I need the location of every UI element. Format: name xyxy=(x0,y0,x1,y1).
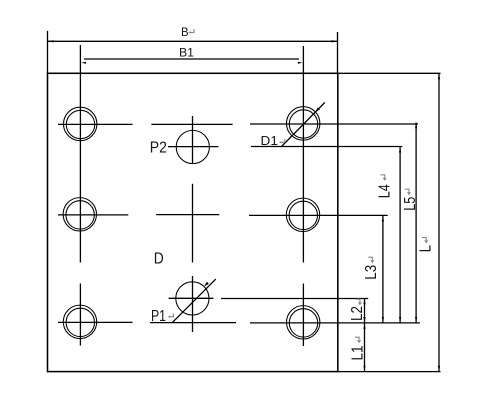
center line row 1 middle xyxy=(151,123,232,125)
arrow L2 bottom xyxy=(363,317,365,323)
center line column 3 lower xyxy=(302,284,304,347)
dimension line L4 xyxy=(399,147,401,323)
dimension line L3 xyxy=(382,216,384,323)
arrow L1 bottom xyxy=(363,366,365,372)
arrow B1 right xyxy=(298,62,303,64)
hole top-right outer circle xyxy=(287,107,320,140)
hole top-left outer circle xyxy=(63,107,96,140)
hole mid-left outer circle xyxy=(63,198,96,231)
plate outline xyxy=(48,73,338,371)
label L4 return mark (rotated) xyxy=(381,175,385,178)
svg-text:L3: L3 xyxy=(363,265,380,280)
arrow L3 bottom xyxy=(382,317,384,323)
arrow L5 top xyxy=(415,123,417,129)
center line row 3 middle (P1 leader underline) xyxy=(150,322,236,324)
center line column 2 upper (through P2) xyxy=(192,116,194,163)
hole bottom-left inner circle xyxy=(66,308,94,336)
center line row 3 left xyxy=(58,321,133,323)
extension line plate top extended right (for L) xyxy=(338,72,441,74)
svg-text:D1: D1 xyxy=(261,133,278,148)
center line row 1 right (extends to L5) xyxy=(250,123,418,125)
hole bottom-left outer circle xyxy=(63,305,96,338)
label L return mark (rotated) xyxy=(422,237,426,240)
center line row 2 middle xyxy=(156,214,219,216)
arrow D1 leader (points at circle) xyxy=(315,107,320,112)
arrow P1 leader (points at circle) xyxy=(204,282,209,287)
center line P1 row left segment xyxy=(169,297,214,299)
center line column 2 middle xyxy=(192,184,194,263)
hole P2 circle xyxy=(176,130,209,163)
arrow L4 bottom xyxy=(399,317,401,323)
center line column 3 upper xyxy=(302,46,304,263)
svg-text:B1: B1 xyxy=(179,46,194,60)
svg-text:D: D xyxy=(154,251,164,268)
center line P2 row right segment (D1 underline, extends to L4) xyxy=(251,146,402,148)
svg-text:P1: P1 xyxy=(151,308,166,325)
center line P2 row left segment xyxy=(168,146,218,148)
center line column 1 upper xyxy=(79,45,81,263)
svg-text:B: B xyxy=(181,25,189,39)
hole bottom-right inner circle xyxy=(289,309,317,337)
extension line plate bottom extended right (for L) xyxy=(338,371,441,373)
svg-text:P2: P2 xyxy=(150,140,167,157)
hole mid-right inner circle xyxy=(289,201,317,229)
dimension line B xyxy=(48,40,338,42)
center line row 3 right (extends past L5) xyxy=(250,322,420,324)
center line P1 row right segment (extends to L2) xyxy=(221,298,368,300)
center line row 2 left xyxy=(58,214,128,216)
extension line left edge top (for B) xyxy=(47,31,49,73)
arrow L5 bottom xyxy=(415,317,417,323)
center line row 1 left xyxy=(58,123,133,125)
dimension line L2 xyxy=(364,299,366,323)
center line column 1 lower xyxy=(79,284,81,346)
dimension line L xyxy=(438,73,440,371)
svg-text:L5: L5 xyxy=(402,197,419,211)
arrow L2 top xyxy=(363,299,365,305)
hole top-left inner circle xyxy=(66,110,94,138)
label L1 return mark (rotated) xyxy=(355,337,359,340)
hole top-right inner circle xyxy=(289,110,317,138)
hole mid-left inner circle xyxy=(66,201,94,229)
hole mid-right outer circle xyxy=(286,198,319,231)
arrow L bottom xyxy=(438,366,440,372)
svg-text:L1: L1 xyxy=(349,345,366,360)
leader line D1 diagonal xyxy=(282,103,325,147)
extension line right edge top (for B) xyxy=(337,32,339,73)
center line row 2 right (extends to L3) xyxy=(249,214,388,216)
arrow B left xyxy=(48,40,54,42)
arrow L3 top xyxy=(382,216,384,222)
label L2 return mark (rotated) xyxy=(356,299,360,302)
label P1 return mark xyxy=(170,313,174,316)
leader line P1 diagonal xyxy=(172,279,216,323)
arrow B1 left xyxy=(81,62,86,64)
hole bottom-right outer circle xyxy=(287,306,320,339)
dimension line L1 xyxy=(364,323,366,371)
label B return mark xyxy=(190,29,194,32)
label L3 return mark (rotated) xyxy=(368,257,372,260)
arrow L1 top xyxy=(363,323,365,329)
svg-text:L2: L2 xyxy=(349,306,366,321)
svg-text:L: L xyxy=(417,245,434,253)
label L5 return mark (rotated) xyxy=(405,189,409,192)
svg-text:L4: L4 xyxy=(377,184,394,198)
label D1 return mark xyxy=(281,139,285,142)
dimension line L5 xyxy=(415,123,417,323)
arrow B right xyxy=(332,40,338,42)
dimension line B1 xyxy=(84,58,299,60)
arrow L4 top xyxy=(399,147,401,153)
arrow L top xyxy=(438,74,440,80)
hole P1 circle xyxy=(176,282,209,315)
center line column 2 lower (through P1) xyxy=(192,276,194,332)
